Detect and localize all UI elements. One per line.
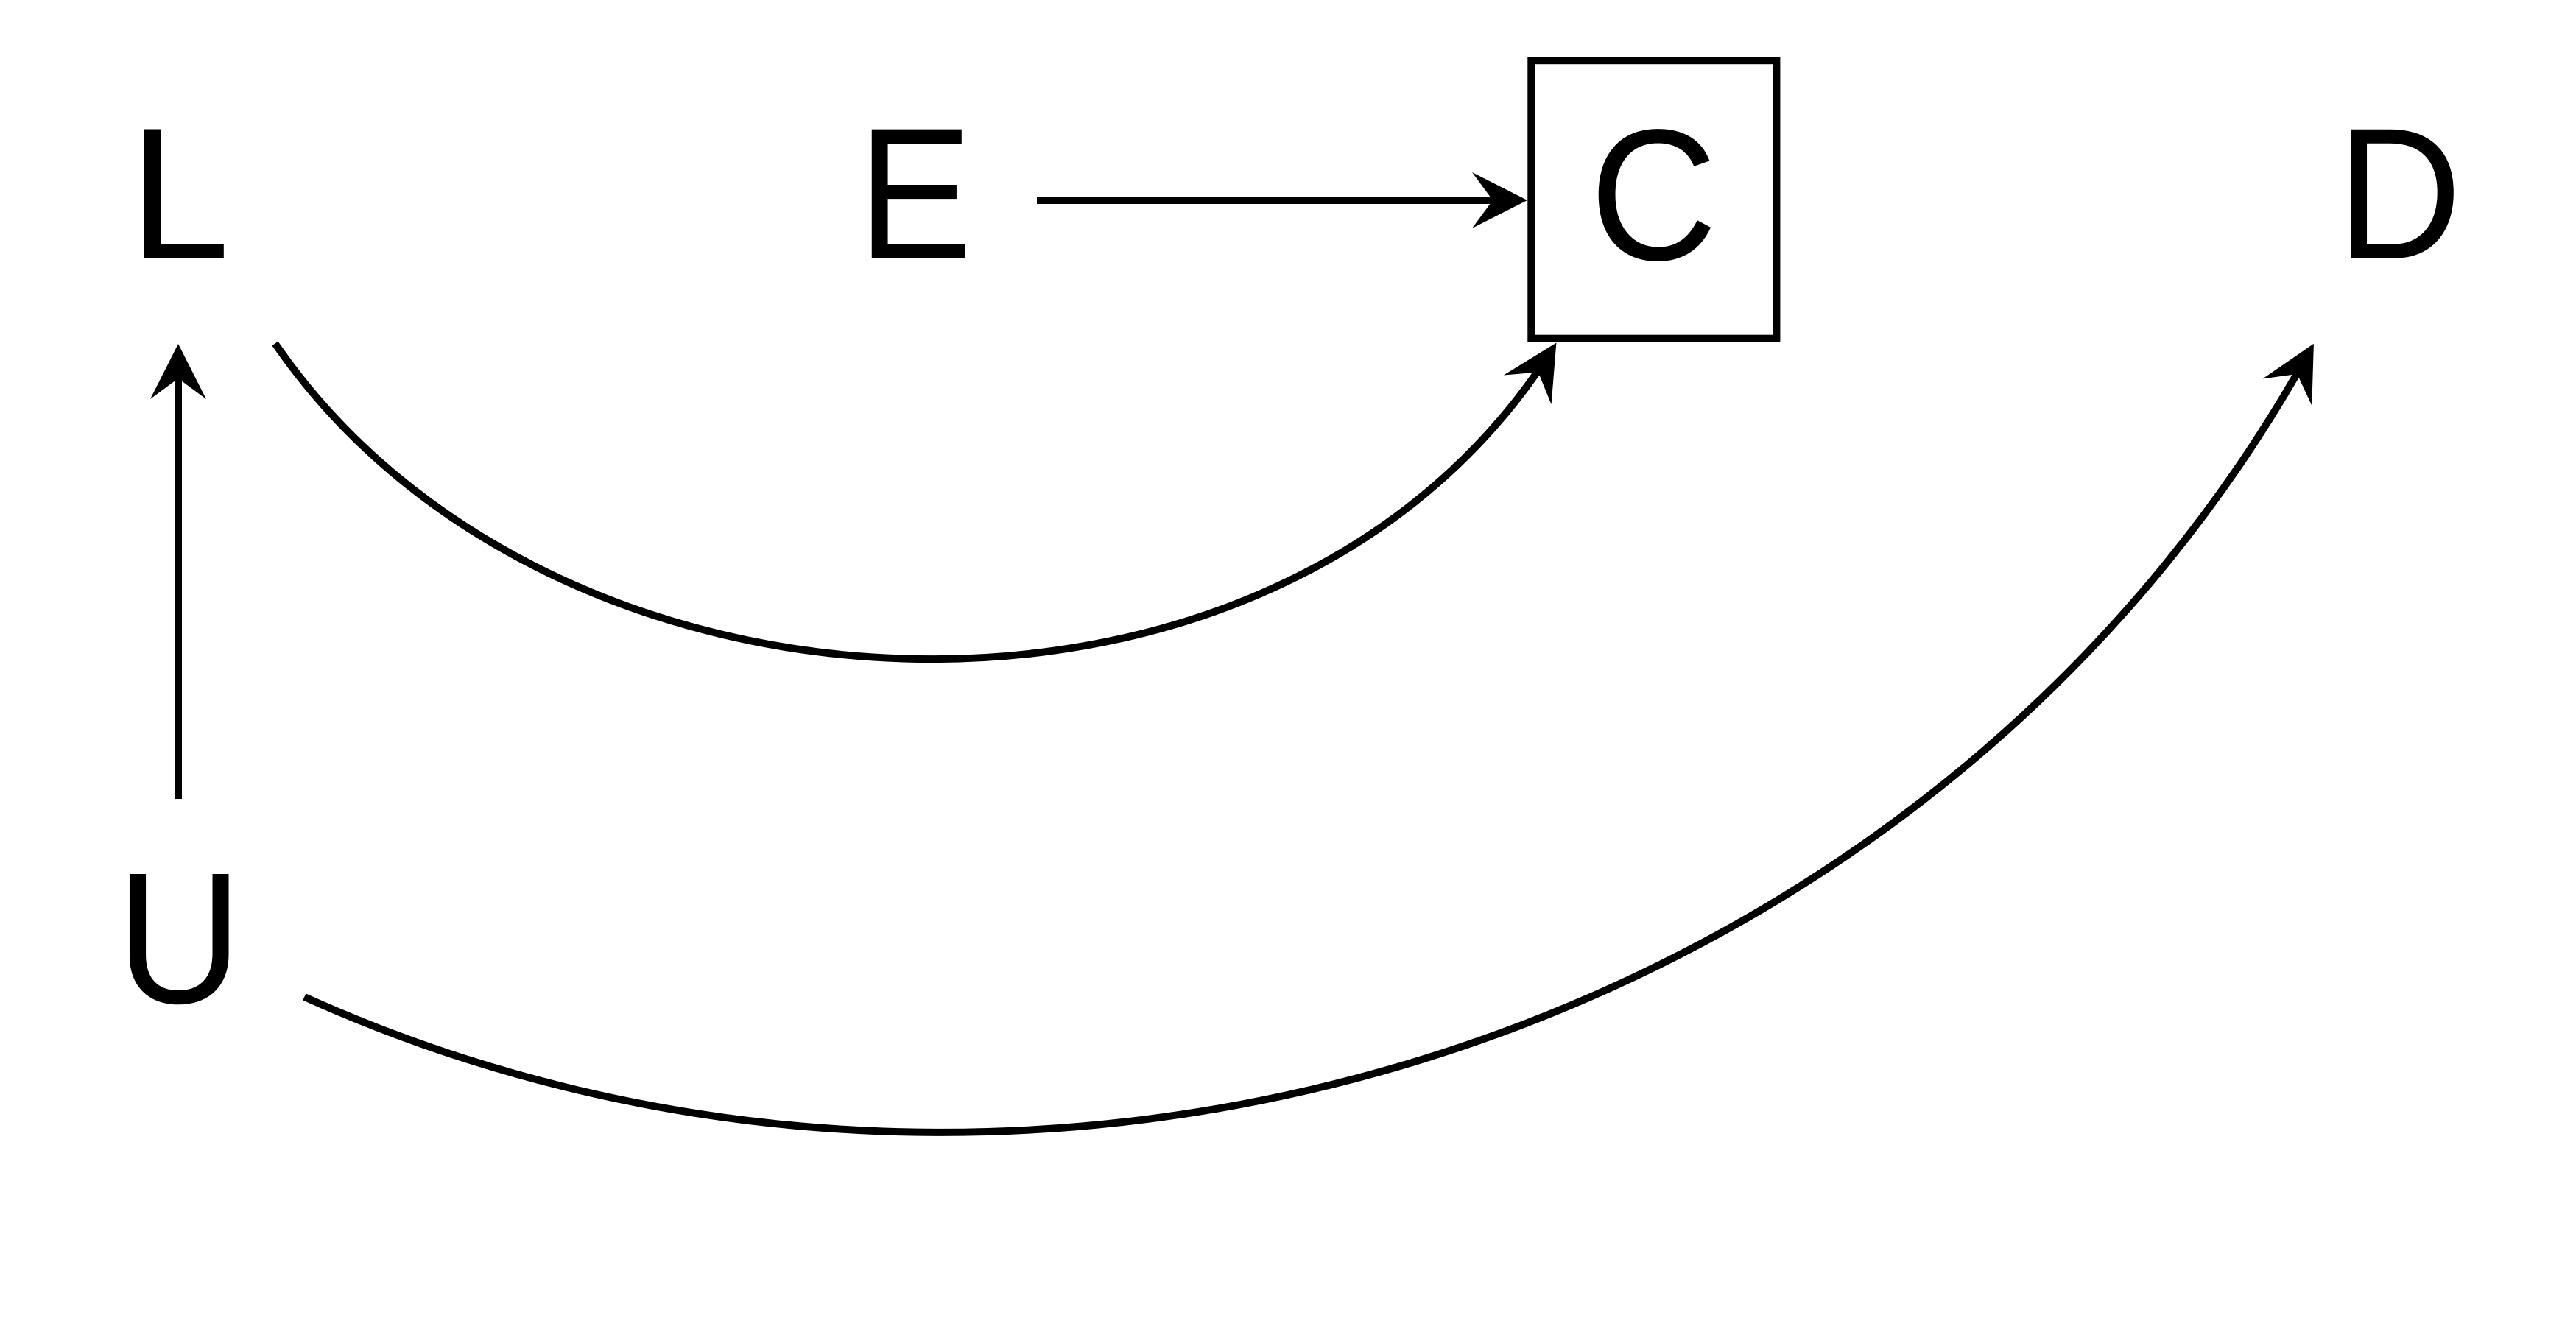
wire L to C (arc) xyxy=(275,344,1538,660)
svg-text:C: C xyxy=(1590,91,1718,300)
wire U to L xyxy=(175,378,182,799)
svg-text:L: L xyxy=(129,88,230,297)
arrowhead U to D xyxy=(2263,331,2339,406)
wire E to C xyxy=(1037,197,1493,204)
arrowhead E to C xyxy=(1472,172,1527,228)
box around C xyxy=(1531,60,1776,339)
svg-text:D: D xyxy=(2337,89,2462,298)
arrowhead U to L xyxy=(150,344,206,399)
arrowhead L to C xyxy=(1504,328,1580,405)
wire U to D (arc) xyxy=(304,374,2297,1132)
svg-text:E: E xyxy=(858,88,973,297)
svg-text:U: U xyxy=(116,834,242,1043)
